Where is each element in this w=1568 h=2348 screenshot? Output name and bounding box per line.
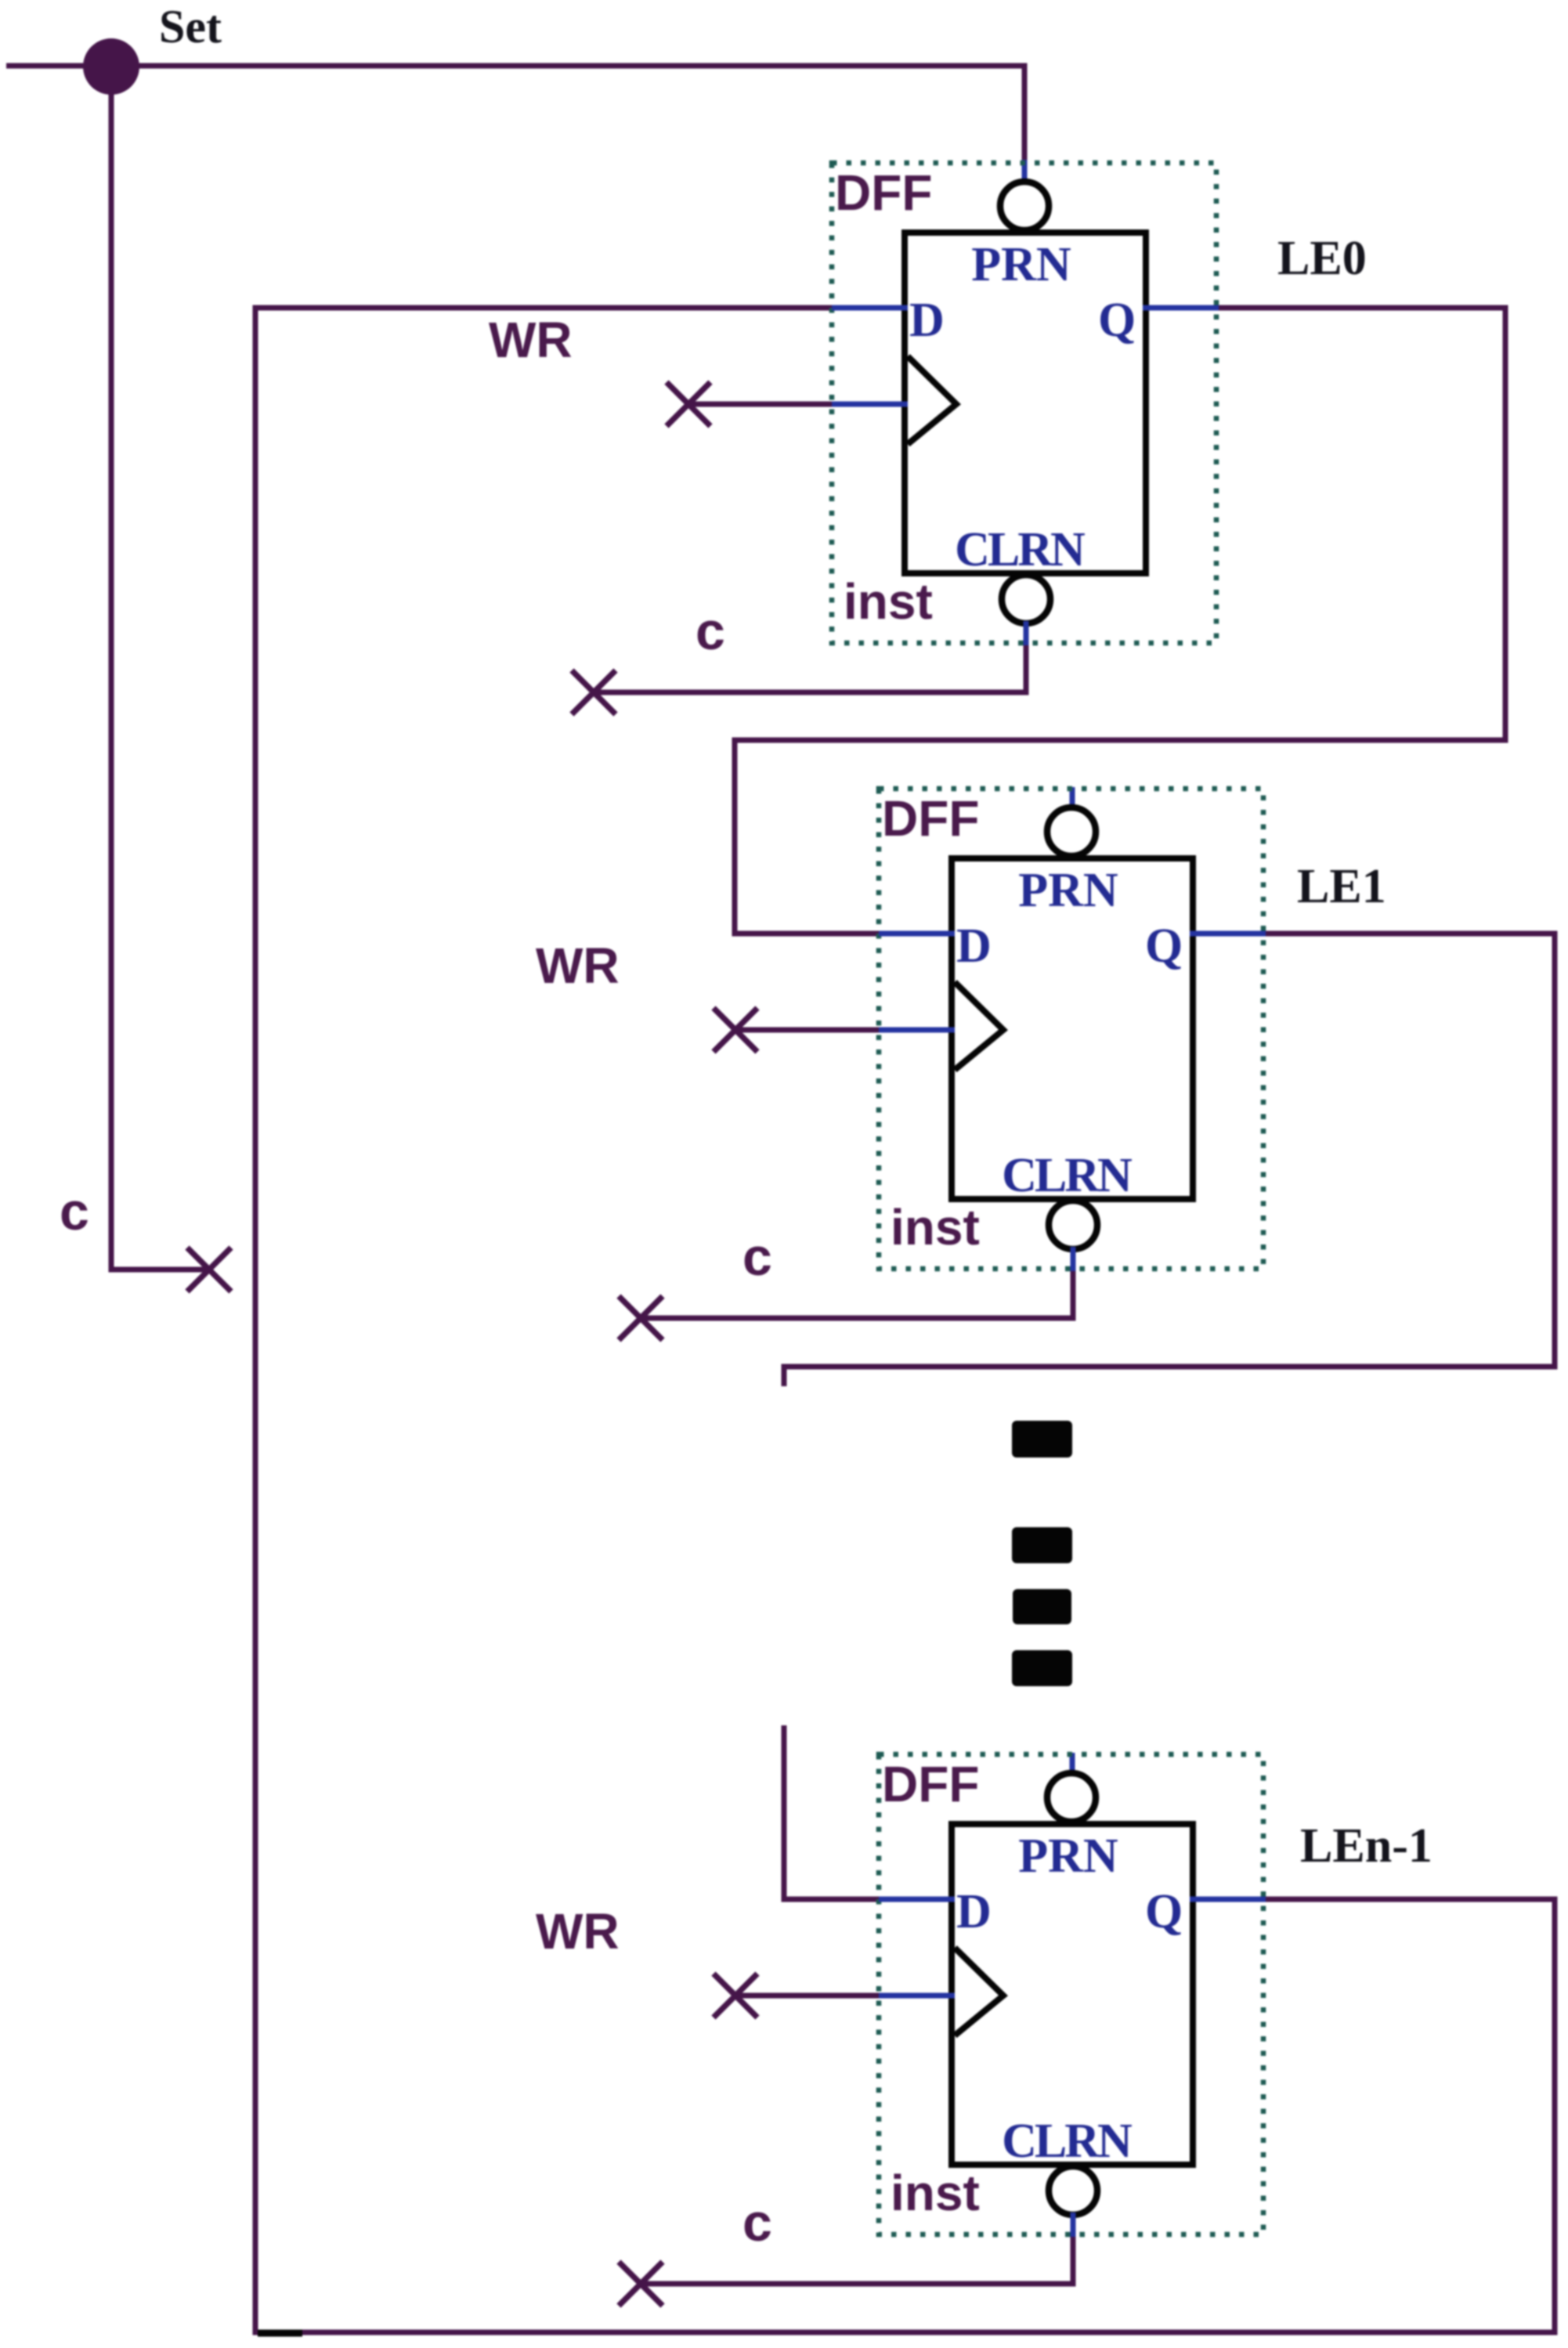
svg-text:c: c [60,1182,89,1241]
ellipsis dash 2 [1012,1527,1072,1563]
dangling-end X of U1 CLRN (net c) [572,670,616,714]
U3 CLRN pin stub wire [1071,2213,1076,2237]
U3 PRN blue stub (unconnected) [1070,1753,1075,1776]
wire: c net to U1 CLRN [594,644,1026,692]
U2 CLRN bubble [1049,1201,1097,1249]
svg-text:c: c [742,2193,772,2252]
U3 D pin stub wire [879,1897,955,1902]
svg-text:D: D [956,1885,992,1938]
dangling-end X of U1 clock (net WR) [667,382,710,426]
U2 D pin stub wire [879,931,955,937]
svg-text:inst: inst [891,1199,980,1255]
flip-flop U2 dotted boundary [879,789,1263,1269]
U1 Q pin stub wire [1143,305,1219,311]
U1 D pin stub wire [832,305,908,311]
svg-text:WR: WR [536,1903,620,1960]
U3 clock pin stub wire [879,1993,955,1999]
ellipsis dash 4 [1012,1650,1072,1686]
U1 CLRN pin stub wire [1024,621,1029,645]
wire: WR clock feed of U1 [688,402,832,407]
U3 clock edge triangle [955,1948,1003,2036]
U1 clock edge triangle [908,356,956,444]
U3 Q pin stub wire [1190,1897,1266,1902]
junction dot on Set net [83,38,139,95]
black mark at bottom-left corner [258,2330,302,2337]
U2 PRN blue stub (unconnected) [1070,787,1075,811]
dangling-end X of U3 clock (net WR) [714,1974,757,2017]
flip-flop U3 dotted boundary [879,1754,1263,2234]
svg-text:WR: WR [536,937,620,994]
wire: LEn-1 feedback loop: U3 Q right, down, along bottom, up left side, into U1 D [255,308,1555,2332]
svg-text:Q: Q [1145,1885,1183,1938]
wire: WR clock feed of U3 [735,1993,879,1999]
flip-flop U2 body [952,858,1193,1199]
flip-flop U1 body [905,233,1146,573]
svg-text:CLRN: CLRN [955,523,1085,576]
svg-text:DFF: DFF [882,1756,979,1812]
svg-text:Q: Q [1145,919,1183,973]
svg-text:inst: inst [891,2165,980,2221]
wire: LE1 net staircase from U2 Q down (broken by ellipsis) [784,934,1555,1386]
U2 Q pin stub wire [1190,931,1266,937]
wire: c net to U2 CLRN [641,1270,1073,1318]
U2 clock pin stub wire [879,1028,955,1033]
svg-text:Q: Q [1098,294,1136,347]
svg-text:LEn-1: LEn-1 [1300,1819,1433,1873]
wire: WR clock feed of U2 [735,1028,879,1033]
svg-text:LE0: LE0 [1277,232,1367,285]
dangling-end X of Set branch (net c) [187,1248,231,1291]
wire: Set net horizontal from left edge to U1 PRN, with drop [6,66,1024,161]
wire: c net to U3 CLRN [641,2234,1073,2284]
U1 PRN bubble [1000,182,1049,230]
svg-text:PRN: PRN [971,238,1071,291]
svg-text:LE1: LE1 [1297,860,1386,913]
svg-text:DFF: DFF [882,790,979,847]
U2 PRN bubble [1047,807,1096,856]
U2 CLRN pin stub wire [1071,1247,1076,1271]
svg-text:DFF: DFF [835,164,932,221]
U1 PRN blue stub [1022,160,1028,185]
flip-flop U1 dotted boundary [832,163,1216,643]
ellipsis dash 1 (omitted stages) [1012,1421,1072,1458]
svg-text:inst: inst [844,573,933,630]
U2 clock edge triangle [955,982,1003,1070]
svg-text:c: c [695,601,725,661]
wire: LE1 staircase continuation into U3 D [784,1725,879,1899]
flip-flop U3 body [952,1824,1193,2165]
U3 CLRN bubble [1049,2166,1097,2215]
svg-text:PRN: PRN [1018,864,1118,917]
U1 clock pin stub wire [832,402,908,407]
dangling-end X of U2 clock (net WR) [714,1008,757,1052]
svg-text:WR: WR [489,312,573,368]
dangling-end X of U3 CLRN (net c) [619,2262,663,2306]
svg-text:Set: Set [159,1,222,52]
svg-text:CLRN: CLRN [1002,1149,1132,1202]
svg-text:PRN: PRN [1018,1830,1118,1883]
dangling-end X of U2 CLRN (net c) [619,1296,663,1340]
wire: LE0 net staircase from U1 Q to U2 D [735,308,1505,934]
svg-text:CLRN: CLRN [1002,2115,1132,2168]
svg-text:c: c [742,1227,772,1287]
U1 CLRN bubble [1002,575,1050,623]
ellipsis dash 3 [1013,1589,1071,1624]
svg-text:D: D [909,294,945,347]
wire: Set branch down-left then right to dangling X [111,67,213,1270]
svg-text:D: D [956,919,992,973]
U3 PRN bubble [1047,1773,1096,1822]
